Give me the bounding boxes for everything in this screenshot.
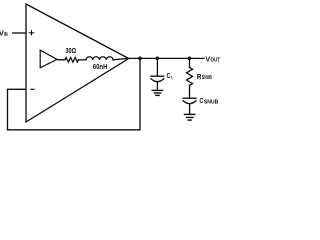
svg-text:SNUB: SNUB: [204, 99, 218, 105]
wire inductor to op-amp output tip: [113, 58, 129, 59]
wire RSNUB branch: [189, 58, 191, 67]
svg-text:IN: IN: [4, 32, 8, 38]
wire buffer output to resistor: [57, 59, 65, 61]
ground (CSNUB): [185, 114, 195, 120]
label VOUT: [205, 54, 220, 63]
wire CL to ground: [156, 82, 158, 90]
resistor RSNUB: [187, 67, 193, 85]
svg-text:C: C: [199, 96, 203, 105]
op-amp inverting input - symbol: [31, 88, 34, 90]
junction node feedback takeoff: [138, 57, 142, 61]
wire feedback loop (output down, across bottom, up to - input): [8, 58, 141, 129]
inductor 60nH: [86, 57, 113, 60]
wire RSNUB to CSNUB: [189, 85, 191, 98]
ground (CL): [152, 90, 162, 95]
buffer amplifier (small triangle inside op-amp): [40, 50, 57, 68]
capacitor CSNUB: [183, 98, 196, 104]
junction node RSNUB: [188, 57, 192, 61]
label RSNUB: [197, 72, 212, 81]
label CSNUB: [199, 96, 218, 105]
label CL: [167, 73, 174, 80]
wire VIN to op-amp + input: [13, 32, 26, 34]
node VIN label: [0, 29, 8, 38]
svg-text:SNUB: SNUB: [202, 75, 212, 81]
op-amp noninverting input + symbol: [29, 31, 33, 35]
wire CL branch: [156, 58, 158, 76]
svg-text:OUT: OUT: [211, 58, 221, 64]
wire CSNUB to ground: [189, 104, 191, 114]
svg-text:60nH: 60nH: [93, 64, 108, 71]
op-amp U1 (big triangle): [26, 4, 129, 122]
resistor 30Ω: [65, 58, 79, 63]
svg-text:C: C: [167, 73, 171, 80]
wire resistor to inductor: [79, 59, 87, 61]
junction node CL: [156, 57, 160, 61]
capacitor CL: [151, 76, 164, 82]
wire op-amp output to VOUT: [129, 57, 204, 59]
svg-text:L: L: [171, 75, 173, 81]
svg-text:30Ω: 30Ω: [65, 48, 76, 55]
